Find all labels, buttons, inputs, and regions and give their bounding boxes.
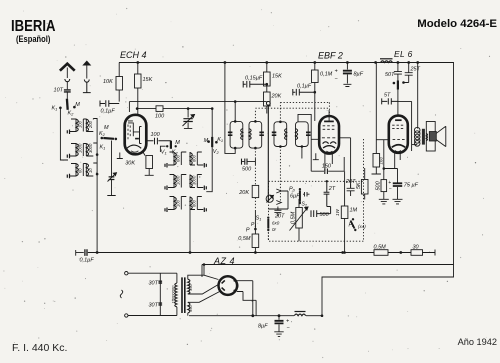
svg-text:800: 800: [192, 199, 197, 207]
svg-text:8µF: 8µF: [354, 72, 364, 78]
svg-text:6x0: 6x0: [272, 221, 280, 226]
svg-text:M: M: [175, 140, 180, 146]
svg-text:K2: K2: [172, 150, 179, 156]
svg-text:0,1µF: 0,1µF: [297, 84, 312, 90]
svg-text:M: M: [104, 125, 109, 131]
svg-text:(Español): (Español): [16, 33, 51, 44]
svg-text:500: 500: [320, 212, 330, 218]
svg-text:3000: 3000: [192, 175, 197, 185]
svg-text:600: 600: [176, 154, 181, 162]
svg-text:0,1µF: 0,1µF: [101, 109, 116, 115]
svg-text:30T: 30T: [149, 281, 159, 287]
svg-text:1M: 1M: [350, 208, 358, 214]
svg-text:50T: 50T: [385, 72, 395, 78]
svg-text:160: 160: [379, 156, 384, 164]
svg-text:F. I. 440 Kc.: F. I. 440 Kc.: [12, 342, 67, 354]
svg-text:6µF: 6µF: [290, 194, 300, 200]
svg-text:−: −: [389, 187, 392, 193]
svg-text:K1: K1: [100, 145, 106, 151]
svg-text:0,5M: 0,5M: [374, 245, 387, 251]
svg-text:(x4): (x4): [358, 224, 366, 229]
svg-text:V1: V1: [161, 150, 167, 156]
svg-text:K2: K2: [68, 111, 75, 117]
svg-text:1000: 1000: [78, 143, 83, 153]
svg-text:EL 6: EL 6: [394, 49, 413, 59]
svg-text:75 µF: 75 µF: [404, 183, 419, 189]
svg-text:350: 350: [188, 284, 193, 291]
svg-text:20T: 20T: [345, 179, 356, 185]
svg-text:25T: 25T: [410, 67, 421, 73]
svg-text:2T: 2T: [328, 186, 336, 192]
svg-text:0r: 0r: [272, 227, 277, 232]
svg-text:P: P: [246, 228, 250, 234]
svg-text:P0: P0: [289, 187, 296, 193]
svg-text:0,5M: 0,5M: [238, 236, 251, 242]
svg-text:Modelo 4264-E: Modelo 4264-E: [417, 18, 497, 30]
svg-text:5K: 5K: [356, 182, 362, 189]
svg-text:15K: 15K: [272, 74, 282, 80]
svg-text:100: 100: [78, 120, 83, 128]
svg-text:500: 500: [375, 180, 381, 190]
svg-text:K2: K2: [99, 131, 106, 137]
svg-text:EBF 2: EBF 2: [318, 51, 343, 61]
svg-text:V2: V2: [213, 149, 220, 155]
svg-text:60: 60: [78, 168, 83, 173]
svg-text:150: 150: [322, 163, 332, 169]
svg-text:1000: 1000: [176, 175, 181, 185]
svg-text:+: +: [388, 180, 391, 186]
svg-text:10K: 10K: [103, 79, 113, 85]
svg-text:100: 100: [176, 199, 181, 207]
svg-text:350: 350: [188, 305, 193, 312]
svg-text:0,5M: 0,5M: [291, 211, 297, 224]
svg-text:M: M: [75, 102, 80, 108]
svg-text:K1: K1: [52, 106, 58, 112]
svg-text:10000000: 10000000: [171, 285, 176, 304]
svg-text:Año 1942: Año 1942: [458, 337, 497, 347]
svg-text:ECH 4: ECH 4: [120, 50, 147, 60]
svg-text:500: 500: [242, 167, 252, 173]
svg-text:15K: 15K: [143, 77, 153, 83]
svg-text:100: 100: [155, 114, 165, 120]
svg-text:5T: 5T: [384, 93, 391, 99]
svg-text:0,1µF: 0,1µF: [80, 258, 95, 264]
svg-text:800: 800: [192, 154, 197, 162]
svg-text:20T: 20T: [274, 214, 285, 220]
svg-text:20K: 20K: [238, 190, 249, 196]
svg-text:100: 100: [151, 132, 161, 138]
svg-text:0,1M: 0,1M: [320, 72, 333, 78]
svg-text:30T: 30T: [149, 303, 159, 309]
svg-text:10T: 10T: [54, 88, 64, 94]
svg-text:K1: K1: [217, 137, 223, 143]
svg-text:8µF: 8µF: [258, 324, 268, 330]
svg-text:10: 10: [88, 168, 93, 173]
svg-text:3000: 3000: [88, 143, 93, 153]
svg-text:0,15µF: 0,15µF: [245, 76, 263, 82]
svg-text:S1: S1: [256, 216, 262, 222]
svg-text:1W: 1W: [335, 208, 340, 216]
svg-text:30: 30: [413, 245, 420, 251]
svg-text:20K: 20K: [271, 94, 282, 100]
svg-text:200: 200: [88, 120, 93, 129]
svg-text:30K: 30K: [125, 161, 135, 167]
